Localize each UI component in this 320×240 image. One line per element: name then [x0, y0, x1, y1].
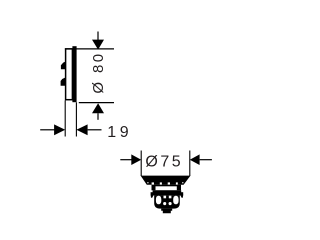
dim Ø80 bottom extension line [79, 102, 114, 104]
dim 19 right extension line [75, 102, 77, 136]
dim Ø80 top arrowhead (down) [92, 40, 104, 50]
dim Ø75 left arrowhead (right) [131, 154, 141, 165]
clip tab lower [61, 77, 66, 85]
flange white tick 4 [176, 182, 178, 184]
drain neck collar [152, 185, 182, 191]
drain bottom tab [161, 209, 172, 214]
drain basket body [154, 195, 180, 208]
svg-text:Ø75: Ø75 [145, 153, 183, 170]
flange white tick 1 [152, 182, 154, 184]
dim Ø80 bottom arrowhead (up) [92, 103, 104, 113]
rim ear left [151, 195, 154, 198]
dim Ø75 right arrow tail [200, 159, 212, 161]
neck white slot [156, 186, 177, 190]
rim ear right [180, 195, 183, 198]
dim 19 left arrowhead (right) [54, 124, 65, 135]
plate face bar (thick front edge) [72, 46, 76, 102]
dim 19 right arrowhead (left) [76, 124, 87, 135]
dim Ø80 bottom arrow tail [97, 113, 99, 120]
dim Ø75 right extension line [189, 151, 191, 177]
basket white dot square 2 [169, 196, 172, 199]
dim 19 left extension line [64, 101, 66, 137]
dim 19 right arrow tail [88, 129, 102, 131]
dim Ø75 right arrowhead (left) [190, 154, 200, 165]
clip tab upper [61, 62, 66, 70]
basket white dot square 1 [164, 196, 167, 199]
dim Ø75 left arrow tail [120, 159, 131, 161]
drain flange trapezoid [141, 176, 191, 185]
dim 19 left arrow tail [40, 129, 54, 131]
basket white circle 2 [169, 202, 172, 205]
plate body (side view rectangle) [66, 49, 73, 100]
drain rim band lower (wide) [151, 192, 184, 195]
basket white circle 1 [163, 202, 166, 205]
dim Ø80 top extension line [65, 48, 114, 50]
dim Ø80 top arrow tail [97, 32, 99, 41]
dim Ø75 left extension line [140, 151, 142, 177]
basket white arch right [173, 196, 178, 205]
flange white speck left [147, 182, 148, 183]
flange white tick 3 [168, 182, 170, 184]
drain rim band upper [153, 190, 182, 192]
basket white arch left [156, 196, 161, 205]
svg-text:19: 19 [107, 124, 132, 141]
flange white tick 2 [160, 182, 162, 184]
flange white speck right [182, 182, 183, 183]
svg-text:Ø 80: Ø 80 [90, 51, 107, 93]
